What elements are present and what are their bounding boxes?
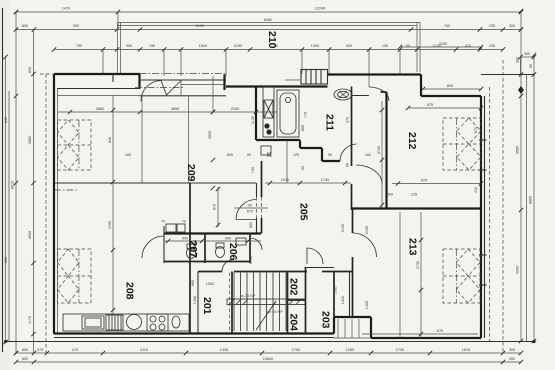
wire: bottom dim chain y353 xyxy=(16,352,521,354)
wall: 206/207 bottom y261.5 xyxy=(164,261,250,263)
wire: left dashed eaves line xyxy=(45,74,47,353)
wall: 208|201 inner x198 xyxy=(197,272,199,334)
svg-text:300: 300 xyxy=(387,193,393,197)
wall: top-left window lines xyxy=(57,88,140,90)
svg-text:12240: 12240 xyxy=(315,7,326,11)
svg-text:210: 210 xyxy=(266,31,278,49)
svg-text:3730: 3730 xyxy=(377,146,381,154)
svg-text:204: 204 xyxy=(288,314,300,332)
svg-text:70: 70 xyxy=(161,220,165,224)
wall: 203 right x334 xyxy=(333,272,335,318)
svg-text:1040: 1040 xyxy=(281,178,289,182)
svg-text:900: 900 xyxy=(126,44,132,48)
svg-text:90: 90 xyxy=(529,64,533,68)
wall: 209|208 divider y183 xyxy=(54,182,256,184)
svg-text:865: 865 xyxy=(191,280,195,286)
wire: top dim chain y49.5 xyxy=(54,49,503,51)
svg-text:70: 70 xyxy=(182,220,186,224)
svg-text:530: 530 xyxy=(346,44,352,48)
svg-text:203: 203 xyxy=(320,311,332,329)
wall: top-left outer y74 xyxy=(54,73,140,75)
svg-text:2880: 2880 xyxy=(96,107,104,111)
wall: 207|206 x205 xyxy=(204,234,206,264)
wall: bottom exterior y333.5 xyxy=(54,332,334,334)
svg-text:670: 670 xyxy=(247,210,253,214)
svg-text:1335: 1335 xyxy=(220,348,228,352)
wall: bathroom bottom steps xyxy=(256,140,340,161)
svg-text:150: 150 xyxy=(149,44,155,48)
svg-text:2190: 2190 xyxy=(234,44,242,48)
svg-text:160: 160 xyxy=(365,153,371,157)
wire: bottom dim chain y362 xyxy=(16,361,521,363)
svg-text:1730: 1730 xyxy=(396,348,404,352)
wall: corridor top inner y95.5 xyxy=(352,95,370,97)
roof window hatch S4 room 213 xyxy=(443,249,480,303)
svg-text:375: 375 xyxy=(37,348,43,352)
svg-text:90: 90 xyxy=(248,204,252,208)
wire: top dim chain y12 xyxy=(16,11,521,13)
wall: corridor|212 x386.5 xyxy=(385,92,387,209)
svg-text:90: 90 xyxy=(346,163,350,167)
svg-text:900: 900 xyxy=(225,237,231,241)
roof window hatch S2 room 208 xyxy=(58,249,92,303)
wire: right dashed eaves line xyxy=(502,60,504,353)
wall: corridor top corner xyxy=(381,91,387,93)
door: 201 entry xyxy=(222,260,234,272)
wire: top right dims xyxy=(400,47,481,108)
svg-text:800: 800 xyxy=(22,24,28,28)
svg-text:1790: 1790 xyxy=(249,256,253,264)
svg-text:1780: 1780 xyxy=(292,348,300,352)
wall: jamb x224 xyxy=(223,75,225,91)
svg-text:4300: 4300 xyxy=(516,266,520,274)
toilet 206 xyxy=(216,243,225,258)
wire: top wall extension to right chains xyxy=(481,74,534,76)
door: 207 entry arc xyxy=(142,236,164,258)
wall: 209|205 band x256.5/261.5 with dashed opening xyxy=(261,161,263,234)
svg-text:870: 870 xyxy=(213,204,217,210)
door: 213 entry arc xyxy=(353,233,377,257)
door: 206 entry arc xyxy=(250,238,262,250)
svg-text:211: 211 xyxy=(324,114,336,131)
svg-text:3650: 3650 xyxy=(28,231,32,239)
svg-text:473: 473 xyxy=(72,348,78,352)
svg-text:1420: 1420 xyxy=(341,296,345,304)
svg-text:1300: 1300 xyxy=(206,282,214,286)
svg-text:600: 600 xyxy=(249,222,253,228)
svg-text:202: 202 xyxy=(288,278,300,296)
wall: bathroom top y86.5 xyxy=(226,85,328,87)
svg-text:1470: 1470 xyxy=(62,7,70,11)
svg-text:740: 740 xyxy=(251,167,255,173)
wall: entrance notch xyxy=(334,317,371,338)
window: french door onto terrace xyxy=(141,81,161,102)
window jambs right wall xyxy=(479,140,487,285)
door: 205 to stair hall arc xyxy=(306,248,308,264)
marker: right diamond xyxy=(518,86,524,94)
roof window hatch S1 room 209 xyxy=(58,120,92,170)
svg-text:875: 875 xyxy=(421,179,427,183)
wall: 207 left x164 xyxy=(163,226,165,263)
svg-text:800: 800 xyxy=(22,357,28,361)
wall: 201/stairs top y271.5 xyxy=(198,271,353,273)
terrace 210 outline xyxy=(118,23,421,76)
svg-text:105: 105 xyxy=(382,44,388,48)
wall: 206 right x250 xyxy=(249,234,251,264)
svg-text:209: 209 xyxy=(185,164,197,182)
sink 206 xyxy=(236,238,246,245)
svg-text:10640: 10640 xyxy=(263,357,274,361)
wall: bathroom left x256 xyxy=(255,87,257,141)
wall: corridor west x351.5 xyxy=(351,87,353,211)
wall: top of 212 y96 xyxy=(421,95,481,97)
svg-text:410: 410 xyxy=(474,187,478,193)
wall: 206/207 top y233.5 xyxy=(164,232,261,234)
wall: closet inner x349.5 xyxy=(349,272,351,318)
wall: axis dashdot top band xyxy=(140,73,227,75)
svg-text:207: 207 xyxy=(187,241,199,259)
wire: page left border xyxy=(2,8,4,352)
svg-text:4730: 4730 xyxy=(416,261,420,269)
svg-text:1815: 1815 xyxy=(462,348,470,352)
door: 205-corridor arc xyxy=(356,165,382,184)
svg-text:201: 201 xyxy=(201,297,213,315)
wall: left exterior outer x54 xyxy=(53,74,55,334)
wire: dims inside 212/213 xyxy=(392,183,481,185)
wall: 202|204 y300 xyxy=(288,299,306,301)
wire: left inner verticals top xyxy=(117,12,119,30)
svg-text:K: K xyxy=(267,152,272,159)
svg-text:3050: 3050 xyxy=(208,131,212,139)
svg-text:2110: 2110 xyxy=(140,348,148,352)
wall: stair right x287.5 xyxy=(287,272,289,334)
axis dashdot between roof windows xyxy=(54,189,78,191)
wire: right extension vertical x526.5 xyxy=(526,75,528,342)
svg-text:3655: 3655 xyxy=(171,107,179,111)
wall: 202/204|203 x305.5 xyxy=(305,267,307,334)
svg-text:2105: 2105 xyxy=(341,224,345,232)
svg-text:1065: 1065 xyxy=(346,348,354,352)
svg-text:760: 760 xyxy=(444,24,450,28)
toilet 207 xyxy=(187,244,196,259)
wire: left dim line x9 xyxy=(8,91,10,342)
svg-text:4785: 4785 xyxy=(108,221,112,229)
wire: dims inside 205 xyxy=(286,140,288,183)
washbasin 211 xyxy=(334,89,352,100)
svg-text:do 04 NP: do 04 NP xyxy=(267,310,283,314)
svg-text:800: 800 xyxy=(227,153,233,157)
svg-text:2100: 2100 xyxy=(439,42,447,46)
svg-text:300: 300 xyxy=(509,357,515,361)
svg-text:ks 05 NP: ks 05 NP xyxy=(240,294,256,298)
svg-text:1400: 1400 xyxy=(365,301,369,309)
svg-text:300: 300 xyxy=(509,24,515,28)
svg-text:875: 875 xyxy=(427,103,433,107)
svg-text:800: 800 xyxy=(447,84,453,88)
svg-text:213: 213 xyxy=(407,238,419,256)
wall: left exterior inner x57.5 xyxy=(57,89,59,335)
svg-text:1170: 1170 xyxy=(28,316,32,324)
svg-text:1390: 1390 xyxy=(311,44,319,48)
porch steps xyxy=(334,319,371,338)
svg-text:90: 90 xyxy=(247,153,251,157)
door: bathroom door arc xyxy=(340,144,357,161)
chimney xyxy=(301,70,328,85)
door: corridor-212 arc xyxy=(369,87,389,101)
wire: right dim chain x521 xyxy=(520,11,522,341)
wall: top y74.5 x327-417 xyxy=(328,73,422,75)
wire: left dim chain x33.5 xyxy=(33,30,35,354)
wall: 212|213 y208.5 xyxy=(352,207,482,209)
svg-text:875: 875 xyxy=(474,127,478,133)
svg-text:212: 212 xyxy=(406,132,418,150)
svg-text:170: 170 xyxy=(304,112,308,118)
wire: bottom plate line xyxy=(6,341,535,343)
svg-text:865: 865 xyxy=(301,125,305,131)
svg-text:235: 235 xyxy=(489,44,495,48)
kitchen counter xyxy=(63,314,189,331)
svg-text:90: 90 xyxy=(328,153,332,157)
svg-text:2190: 2190 xyxy=(231,107,239,111)
wall: jamb x139.5 xyxy=(138,74,140,89)
shaft K xyxy=(261,87,274,155)
svg-text:2105: 2105 xyxy=(365,226,369,234)
svg-text:800: 800 xyxy=(22,348,28,352)
svg-text:370: 370 xyxy=(346,117,350,123)
wall: bottom exterior right y338 xyxy=(371,337,481,339)
svg-text:3580: 3580 xyxy=(516,146,520,154)
svg-text:1035: 1035 xyxy=(334,286,338,294)
svg-text:300: 300 xyxy=(509,348,515,352)
wire: left dim chain x16 xyxy=(15,12,17,353)
roof window hatch S3 room 212 xyxy=(443,118,481,170)
svg-text:1540: 1540 xyxy=(199,44,207,48)
wire: top right mini chain xyxy=(521,56,535,58)
svg-text:183: 183 xyxy=(125,153,131,157)
svg-text:205: 205 xyxy=(298,203,310,221)
svg-text:1480: 1480 xyxy=(193,296,197,304)
svg-text:208: 208 xyxy=(124,282,136,300)
wall: jamb x113 xyxy=(112,74,114,82)
door: 209-205 leaf and arc xyxy=(236,219,256,221)
svg-text:1120: 1120 xyxy=(251,116,255,124)
wire: interior dim horizontals xyxy=(58,111,278,113)
wall: 201|stairs x232 xyxy=(231,272,233,334)
svg-text:2190: 2190 xyxy=(196,24,204,28)
svg-text:675: 675 xyxy=(437,329,443,333)
wire: dim extensions from top chain to wall xyxy=(103,50,400,88)
svg-text:90: 90 xyxy=(301,166,305,170)
svg-text:1740: 1740 xyxy=(321,178,329,182)
wall: 213 west x352.5 with door xyxy=(352,209,354,318)
svg-text:8860: 8860 xyxy=(529,196,533,204)
svg-text:6060: 6060 xyxy=(264,18,272,22)
wire: left dim line total height xyxy=(5,57,7,342)
svg-text:125: 125 xyxy=(411,193,417,197)
svg-text:125: 125 xyxy=(293,153,299,157)
svg-text:345: 345 xyxy=(4,117,8,123)
wire: top dim chain y29.5 xyxy=(16,29,521,31)
svg-text:300: 300 xyxy=(516,57,520,63)
bathtub xyxy=(277,90,299,137)
svg-text:260: 260 xyxy=(4,257,8,263)
wall: top band y78.5 x139.5-226 xyxy=(140,79,227,81)
svg-text:900: 900 xyxy=(73,24,79,28)
svg-text:206: 206 xyxy=(227,243,239,261)
svg-text:790: 790 xyxy=(76,44,82,48)
svg-text:2880: 2880 xyxy=(28,136,32,144)
wall: right exterior x481 xyxy=(480,96,482,338)
wire: right dim chain x534 xyxy=(533,55,535,341)
wall: 208|201 x190 xyxy=(189,183,191,334)
wire: interior dim verticals xyxy=(113,76,421,338)
svg-text:300: 300 xyxy=(524,52,530,56)
wall: step x417 xyxy=(420,75,422,97)
svg-text:235: 235 xyxy=(489,24,495,28)
svg-text:800: 800 xyxy=(28,67,32,73)
wire: dim vertical x218 xyxy=(217,187,219,227)
wire: right dashed eaves line 2 xyxy=(489,87,491,341)
stairs xyxy=(227,273,305,332)
svg-text:845: 845 xyxy=(108,137,112,143)
cabinets above 207 xyxy=(166,224,185,232)
